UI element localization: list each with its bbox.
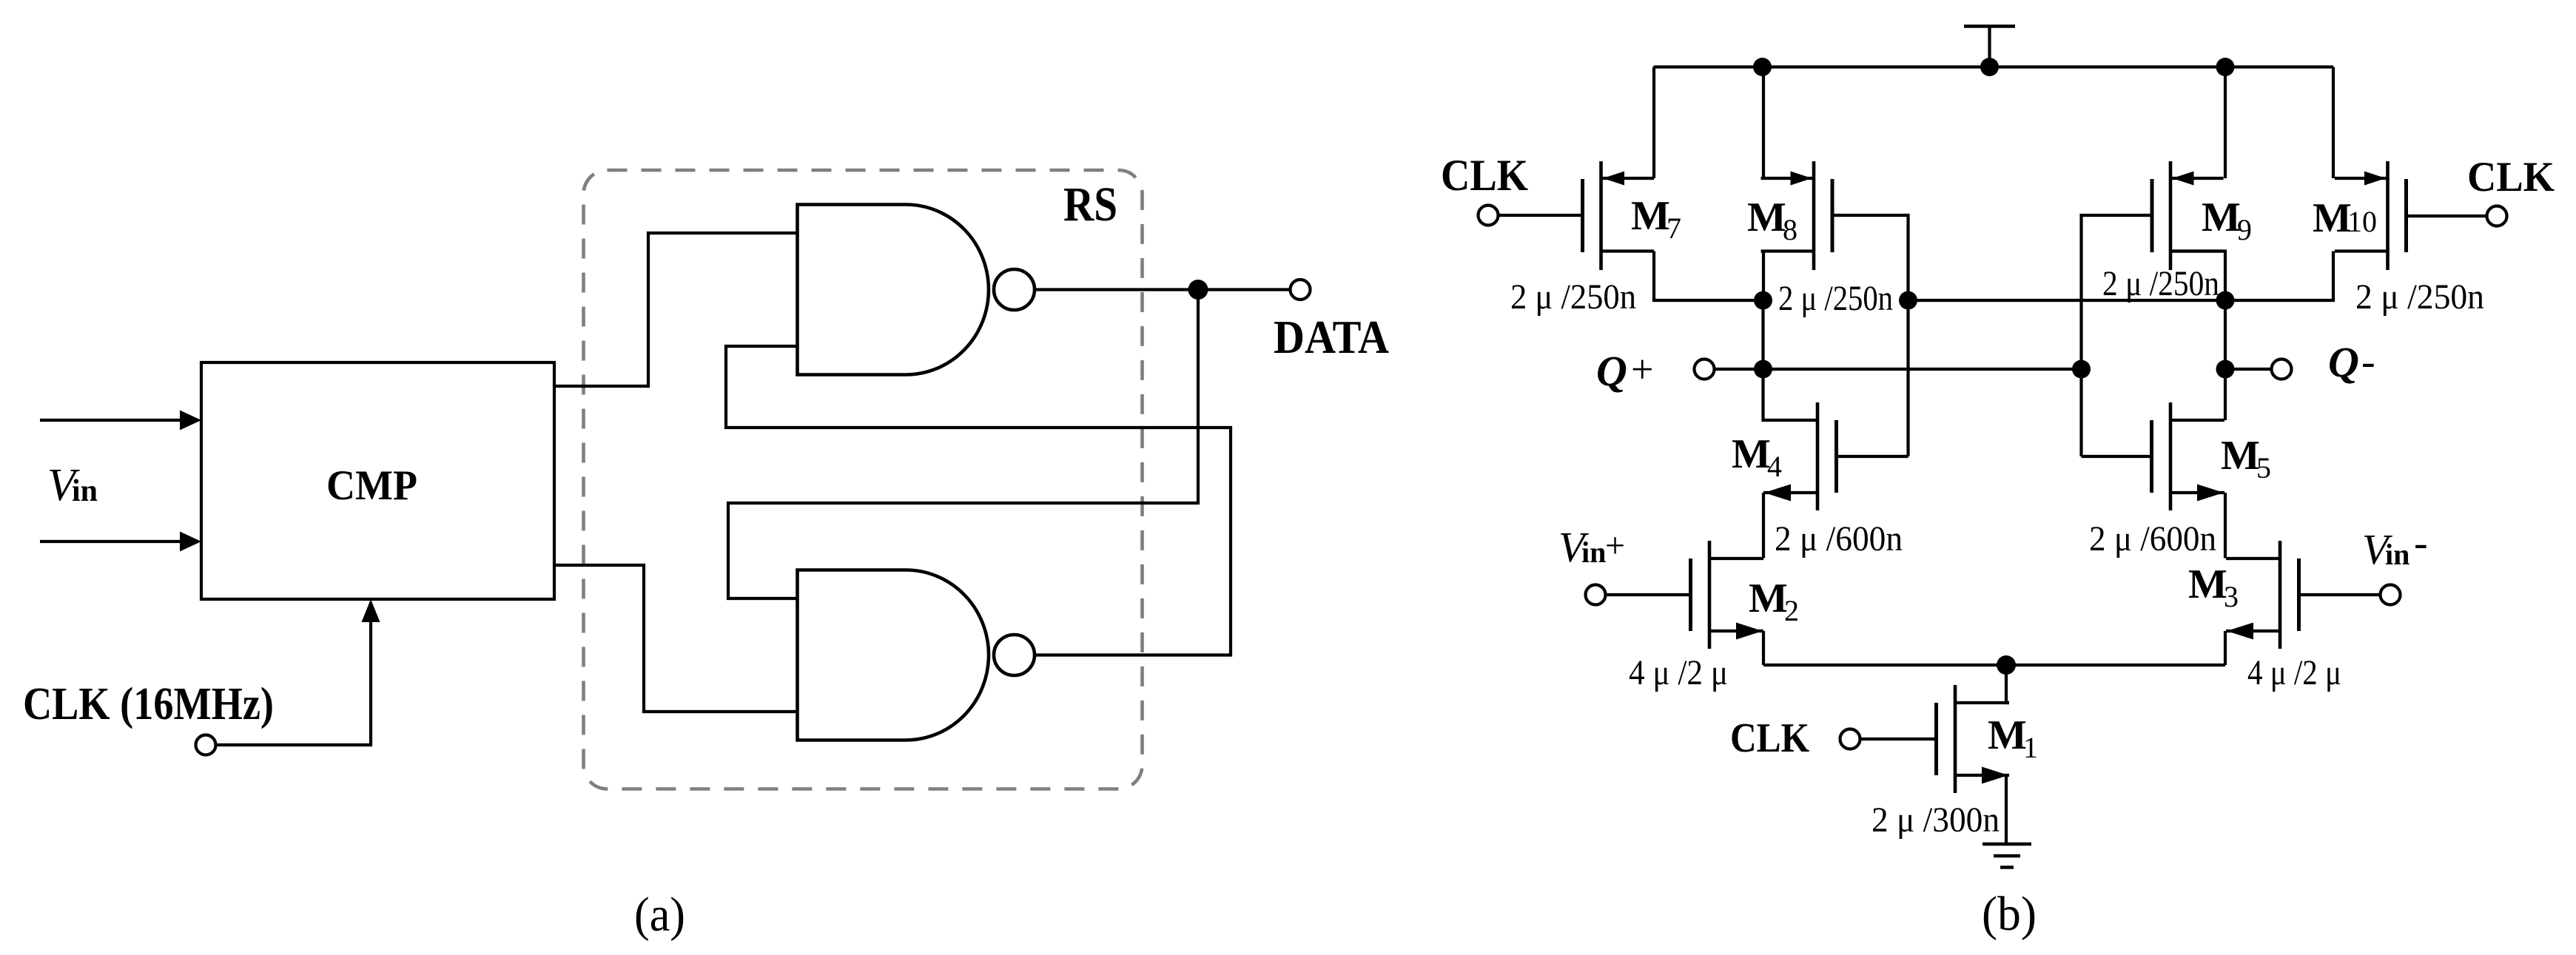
label M10 size 2u/250n (2355, 277, 2484, 317)
transistor M3 (NMOS, input pair -) (2226, 541, 2299, 649)
wire M10 drain riser to rail (2332, 67, 2335, 179)
terminal CLK(16MHz) (196, 735, 216, 755)
svg-text:-: - (2414, 520, 2428, 566)
svg-text:in: in (2385, 538, 2409, 571)
svg-text:Q: Q (2328, 338, 2359, 386)
svg-text:(b): (b) (1982, 887, 2037, 941)
NAND gate U1 body (798, 205, 989, 375)
label M2 (1749, 576, 1799, 627)
svg-text:4 μ /2 μ: 4 μ /2 μ (2247, 653, 2341, 692)
node rail-M9 (2216, 58, 2235, 76)
svg-text:M: M (2221, 433, 2260, 479)
node M7-M8 drain join (1754, 291, 1772, 310)
svg-text:2 μ /250n: 2 μ /250n (1510, 277, 1636, 317)
svg-text:2 μ /600n: 2 μ /600n (2089, 519, 2216, 559)
svg-text:(a): (a) (634, 888, 685, 942)
wire M10 source to node (2225, 252, 2333, 301)
wire M5 gate to Q+ column (2082, 369, 2153, 456)
node Q- junction (2216, 360, 2235, 379)
svg-text:2 μ /250n: 2 μ /250n (2355, 277, 2484, 317)
label M9 size 2u/250n (2102, 264, 2219, 303)
terminal Q- (2272, 360, 2292, 379)
label RS (1063, 178, 1117, 232)
terminal CLK M7 (1479, 206, 1499, 226)
svg-text:10: 10 (2347, 205, 2377, 238)
wire cross-couple node line (gates M8/M4 to Q- node) (1909, 299, 2226, 302)
terminal Q+ (1695, 360, 1715, 379)
label CLK top-right (2467, 154, 2555, 200)
svg-text:5: 5 (2256, 451, 2271, 485)
wire CMP bottom output to NAND U2 input B (554, 565, 797, 712)
input arrow Vin top (40, 411, 201, 431)
svg-text:2 μ /250n: 2 μ /250n (1778, 279, 1893, 318)
svg-text:-: - (2361, 339, 2375, 385)
ground (1983, 844, 2031, 868)
node Q+ to M9/M5 gates (2072, 360, 2091, 379)
svg-text:in: in (1581, 536, 1606, 569)
node gate cross-couple (1899, 291, 1917, 310)
label (a) (634, 888, 685, 942)
wire M2 source to tail (1762, 631, 1765, 665)
node Q- drain join (2216, 291, 2235, 310)
label CLK bottom (1730, 715, 1809, 761)
label M5 (2221, 433, 2271, 485)
transistor M4 (NMOS, latch) (1763, 402, 1837, 510)
label CLK top-left (1441, 151, 1528, 200)
wire M5 source down to M3 drain (2224, 493, 2227, 559)
wire M8 source down to node (1762, 252, 1765, 301)
label M8 size 2u/250n (1778, 279, 1893, 318)
label (b) (1982, 887, 2037, 941)
label Vin- (2362, 520, 2428, 573)
svg-text:CLK: CLK (1441, 151, 1528, 200)
wire M8 drain riser to rail (1762, 67, 1765, 179)
wire M4 source down to M2 drain (1762, 493, 1765, 559)
comparator CMP block (201, 362, 554, 599)
svg-text:M: M (1747, 195, 1786, 240)
wire M7 drain riser to rail (1652, 67, 1655, 179)
label M2 size 4u/2u (1629, 653, 1728, 692)
label DATA (1274, 311, 1389, 363)
wire Q- node down to Q- line (2224, 300, 2227, 369)
wire Q- node to terminal (2225, 368, 2272, 371)
svg-text:M: M (2202, 195, 2241, 240)
terminal DATA (1291, 280, 1311, 300)
wire M9 source down to node (2170, 252, 2225, 301)
terminal Vin- (2381, 585, 2401, 605)
label CMP (326, 462, 417, 509)
wire M4 gate to cross-couple column (1837, 300, 1909, 456)
svg-text:2 μ /600n: 2 μ /600n (1775, 519, 1903, 559)
wire Q+ down to M4 drain (1761, 369, 1765, 420)
node rail-M8 (1753, 58, 1772, 76)
transistor M5 (NMOS, latch) (2152, 402, 2225, 510)
svg-text:CLK (16MHz): CLK (16MHz) (23, 679, 274, 729)
terminal CLK M1 (1840, 729, 1860, 749)
VDD supply symbol (1964, 27, 2015, 67)
svg-text:+: + (1605, 526, 1625, 565)
svg-text:2 μ /250n: 2 μ /250n (2102, 264, 2219, 303)
svg-text:CLK: CLK (1730, 715, 1809, 761)
wire CLK to M7 gate (1499, 214, 1583, 217)
wire CMP top output to NAND U1 input A (554, 233, 797, 386)
svg-text:9: 9 (2237, 213, 2252, 246)
wire CLK to CMP with up arrow (216, 599, 380, 745)
svg-text:2 μ /300n: 2 μ /300n (1872, 800, 2000, 840)
svg-text:Q: Q (1596, 347, 1627, 395)
wire M9 drain riser to rail (2224, 67, 2227, 179)
wire U2 output feedback to U1 input B (726, 346, 1231, 655)
label M1 size 2u/300n (1872, 800, 2000, 840)
dashed RS-latch boundary box (584, 170, 1143, 789)
label Q- (2328, 338, 2375, 386)
svg-text:DATA: DATA (1274, 311, 1389, 363)
label M7 (1631, 193, 1681, 245)
label M1 (1988, 712, 2038, 764)
wire Q+ line (1715, 368, 2082, 371)
terminal Vin+ (1586, 585, 1606, 605)
svg-text:CLK: CLK (2467, 154, 2555, 200)
label M9 (2202, 195, 2252, 246)
transistor M10 (PMOS, clocked) (2335, 161, 2407, 270)
wire CLK to M10 gate (2407, 215, 2487, 217)
label M7 size 2u/250n (1510, 277, 1636, 317)
svg-text:4 μ /2 μ: 4 μ /2 μ (1629, 653, 1728, 692)
wire U1 output to DATA (1035, 288, 1291, 291)
wire CLK to M1 gate (1860, 738, 1937, 740)
terminal CLK M10 (2487, 206, 2507, 226)
svg-text:M: M (1631, 193, 1670, 239)
label Q+ (1596, 347, 1653, 395)
label M3 size 4u/2u (2247, 653, 2341, 692)
label M3 (2188, 561, 2239, 613)
svg-text:1: 1 (2023, 731, 2038, 764)
node DATA junction (1188, 280, 1208, 300)
input arrow Vin bottom (40, 532, 201, 552)
NAND gate U2 inversion bubble (994, 635, 1035, 675)
wire M9 gate to Q+ column (2082, 215, 2153, 369)
svg-text:CMP: CMP (326, 462, 417, 509)
NAND gate U1 inversion bubble (994, 269, 1035, 310)
svg-text:M: M (2313, 195, 2352, 241)
transistor M9 (PMOS, latch) (2152, 161, 2224, 270)
svg-text:+: + (1631, 347, 1653, 391)
label M5 size 2u/600n (2089, 519, 2216, 559)
svg-text:M: M (1749, 576, 1788, 621)
wire Vin- to M3 gate (2299, 593, 2381, 596)
wire Q+ node column (1761, 300, 1764, 369)
svg-text:4: 4 (1767, 450, 1782, 483)
label M4 (1732, 431, 1782, 483)
label Vin+ (1558, 523, 1625, 571)
label M4 size 2u/600n (1775, 519, 1903, 559)
svg-text:M: M (1732, 431, 1771, 477)
transistor M7 (PMOS, clocked) (1583, 161, 1655, 270)
transistor M2 (NMOS, input pair +) (1691, 541, 1764, 649)
label Vin (47, 460, 98, 510)
wire M8 gate to cross-couple column (1832, 215, 1909, 300)
wire tail line (1763, 664, 2225, 667)
svg-text:7: 7 (1667, 212, 1681, 245)
label M8 (1747, 195, 1798, 246)
label M10 (2313, 195, 2377, 241)
wire U1 output feedback to U2 input A (728, 290, 1198, 599)
svg-text:8: 8 (1783, 213, 1798, 246)
svg-text:2: 2 (1784, 594, 1799, 627)
node Q+ junction (1754, 360, 1772, 379)
wire M7 source to node (1654, 252, 1763, 301)
svg-text:M: M (1988, 712, 2027, 758)
wire VDD rail (1654, 65, 2334, 68)
transistor M8 (PMOS, latch) (1761, 161, 1833, 270)
node rail-VDD (1980, 58, 1999, 76)
wire Q- down to M5 drain (2224, 369, 2227, 420)
node tail junction (1997, 655, 2016, 675)
svg-text:3: 3 (2224, 580, 2239, 613)
svg-text:RS: RS (1063, 178, 1117, 232)
wire M3 source to tail (2224, 631, 2227, 665)
transistor M1 (NMOS, tail clock) (1937, 685, 2010, 793)
label CLK (16MHz) (23, 679, 274, 729)
NAND gate U2 body (798, 570, 989, 740)
wire Vin+ to M2 gate (1606, 593, 1691, 596)
svg-text:in: in (72, 474, 98, 508)
wire tail down to M1 drain (2006, 665, 2009, 703)
wire M1 source to ground (2005, 775, 2008, 844)
svg-text:M: M (2188, 561, 2227, 607)
